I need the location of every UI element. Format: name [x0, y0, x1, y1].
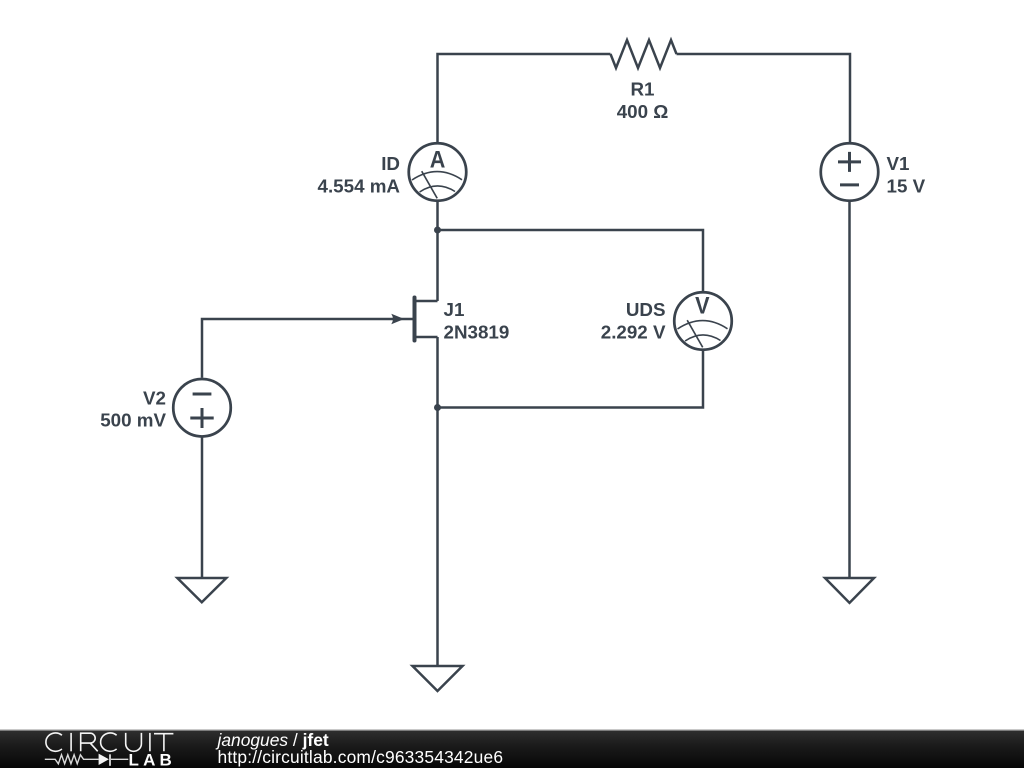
svg-text:2.292 V: 2.292 V [601, 322, 666, 343]
wire: ammeter top to R1 left lead (top rail) [438, 54, 611, 142]
voltage source V2 [173, 379, 231, 437]
footer title: janogues / jfet [218, 733, 329, 747]
logo letter I [149, 733, 151, 751]
CircuitLab footer bar [0, 729, 1024, 768]
svg-text:15 V: 15 V [887, 175, 926, 196]
svg-text:2N3819: 2N3819 [444, 322, 510, 343]
node A junction dot [434, 227, 441, 234]
svg-text:A: A [430, 145, 446, 172]
svg-text:V1: V1 [887, 153, 910, 174]
wire: node A down to J1 drain lead [436, 230, 439, 301]
svg-text:LAB: LAB [129, 751, 177, 768]
wire: V2 bottom to ground [201, 436, 204, 578]
wire: ammeter bottom to node A [436, 201, 439, 230]
logo letter C [46, 733, 62, 751]
logo letter C [101, 733, 117, 751]
svg-text:R1: R1 [630, 79, 654, 100]
node B junction dot [434, 404, 441, 411]
ground (JFET source branch) [413, 666, 463, 691]
wire: J1 source lead down to node B [436, 337, 439, 408]
logo diode cathode bar [109, 754, 111, 766]
logo letter T [154, 734, 173, 752]
wire: V1 bottom to ground [848, 201, 851, 578]
svg-text:V: V [695, 292, 710, 319]
logo letter I [70, 733, 72, 751]
wire: node A right and down to voltmeter top [438, 230, 704, 292]
ammeter ID [409, 143, 467, 201]
logo diode triangle [99, 754, 109, 765]
voltmeter UDS [674, 292, 732, 350]
logo letter R [81, 733, 98, 751]
logo wire to LAB [111, 758, 128, 760]
svg-text:500 mV: 500 mV [100, 410, 166, 431]
wire: node B down to ground [436, 408, 439, 667]
resistor R1 [611, 40, 677, 68]
logo resistor icon zigzag [45, 755, 99, 764]
svg-text:400 Ω: 400 Ω [617, 101, 669, 122]
svg-text:UDS: UDS [626, 299, 666, 320]
voltage source V1 [821, 143, 879, 201]
svg-text:J1: J1 [444, 299, 465, 320]
ground (V1 negative terminal) [825, 578, 874, 603]
footer URL [218, 750, 504, 764]
svg-text:ID: ID [381, 153, 400, 174]
wire: J1 gate left to V2 top corner [202, 319, 413, 378]
svg-text:V2: V2 [143, 387, 166, 408]
wire: voltmeter bottom to node B [438, 350, 704, 408]
svg-text:4.554 mA: 4.554 mA [318, 175, 401, 196]
JFET J1 [391, 298, 437, 341]
wire: R1 right lead to V1 top [677, 54, 851, 142]
ground (V2 negative terminal) [177, 578, 226, 602]
logo letter U [126, 733, 142, 751]
